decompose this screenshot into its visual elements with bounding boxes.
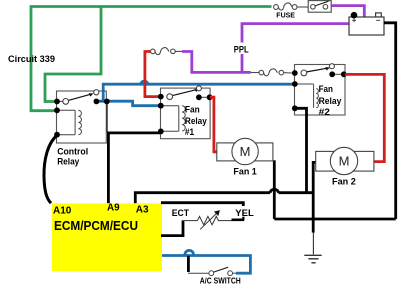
svg-text:Circuit 339: Circuit 339 (8, 54, 55, 64)
control relay U1 box (57, 91, 107, 143)
fan relay U3 top contact circle (329, 64, 334, 69)
svg-text:A/C SWITCH: A/C SWITCH (200, 277, 241, 284)
wire fan2 motor return (313, 162, 316, 219)
svg-text:A9: A9 (107, 203, 120, 214)
svg-text:ECM/PCM/ECU: ECM/PCM/ECU (54, 218, 138, 233)
wire red relay2 to fan2 motor (345, 74, 384, 161)
wire purple ignition to battery (331, 6, 364, 17)
svg-text:FUSE: FUSE (276, 13, 295, 20)
fuse F1 (274, 3, 309, 10)
svg-text:YEL: YEL (235, 208, 254, 219)
node control relay pins (54, 99, 60, 105)
wire A10 curve ECM to control relay coil (44, 135, 58, 203)
fan relay U3 switch blade (307, 68, 327, 72)
wire circuit-339 green feed (31, 7, 272, 111)
wire PPL purple battery to fuse F2 (182, 24, 349, 73)
YEL connector terminal (232, 217, 245, 220)
fan2 motor M2 circle (330, 147, 357, 174)
fan relay U2 box (161, 88, 211, 139)
fuse F3 (151, 48, 183, 55)
wire control relay switch output to A9 node (106, 101, 108, 132)
wire green branch to control relay switch (45, 7, 101, 102)
wire fan1 motor return (273, 160, 276, 219)
fan relay U2 coil (178, 106, 180, 132)
ignition switch S1 (308, 1, 331, 13)
ECM yellow box (52, 203, 162, 271)
wire blue junction to relay1 coil (103, 101, 160, 106)
fan relay U2 switch blade (172, 90, 195, 96)
svg-text:A3: A3 (136, 205, 149, 216)
fan relay U2 switch common circle (167, 94, 173, 100)
wire ECM to ECT junction (161, 220, 183, 235)
wire battery negative to ground bus (384, 23, 396, 219)
fan relay U2 contact line (199, 96, 210, 98)
wire red relay1 to fan1 motor (210, 97, 217, 152)
AC switch S2 (188, 267, 236, 275)
svg-text:Relay: Relay (185, 116, 208, 126)
fuse F2 (251, 69, 293, 76)
svg-text:ECT: ECT (172, 208, 189, 219)
battery plus terminal dot (351, 12, 358, 19)
fan relay U3 coil (313, 85, 315, 108)
svg-text:PPL: PPL (234, 44, 249, 54)
svg-text:#2: #2 (319, 107, 330, 117)
svg-text:Relay: Relay (57, 156, 80, 167)
svg-text:Fan: Fan (185, 105, 200, 115)
fan relay U3 contact line (332, 73, 344, 75)
svg-text:A10: A10 (53, 205, 72, 216)
control relay U1 coil (74, 110, 76, 134)
fan relay U3 switch common circle (301, 70, 307, 76)
svg-text:M: M (339, 154, 350, 169)
fan relay U2 top contact circle (196, 86, 201, 91)
fan1 motor M1 circle (232, 138, 258, 164)
control relay U1 top contact circle (94, 90, 99, 95)
wire ECM to YEL connector (161, 203, 243, 206)
wire relay2 coil low to A3 line (295, 108, 307, 192)
svg-text:Fan: Fan (319, 84, 334, 94)
fan1 motor box (217, 143, 273, 161)
battery B1 (349, 13, 384, 35)
fan2 motor box (316, 151, 374, 171)
wire A9 ECM to relay1 coil low (108, 133, 160, 203)
control relay U1 switch blade (68, 95, 89, 101)
svg-text:Fan 1: Fan 1 (233, 167, 256, 177)
wire red fuse F3 to relay1 (145, 52, 160, 97)
svg-text:M: M (240, 144, 251, 159)
wire black ECT junction to AC switch (187, 256, 190, 272)
control relay U1 contact line (57, 100, 64, 102)
resistor ECT thermistor (184, 213, 232, 230)
control relay U1 switch common circle (63, 99, 69, 105)
wire ground bus (274, 218, 395, 221)
battery polarity marks (352, 18, 380, 22)
fan relay U2 coil leads (161, 105, 179, 107)
svg-text:Fan 2: Fan 2 (332, 177, 356, 187)
wire blue ECM to AC switch with loop (162, 250, 250, 273)
wire blue relay2 to junction (96, 81, 294, 101)
svg-text:Relay: Relay (319, 96, 343, 106)
node control relay right pin (104, 99, 110, 105)
wire A3 ECM to ground node with hop (135, 189, 313, 203)
node control relay inner contact (94, 99, 100, 105)
ground symbol (304, 219, 321, 263)
fan relay U3 coil lead (297, 83, 314, 85)
fan relay U3 box (295, 65, 346, 116)
node fan relay U2 pins (158, 94, 164, 100)
control relay U1 coil leads (57, 109, 75, 111)
node fan relay U3 pins (292, 70, 298, 76)
svg-text:#1: #1 (185, 127, 194, 137)
